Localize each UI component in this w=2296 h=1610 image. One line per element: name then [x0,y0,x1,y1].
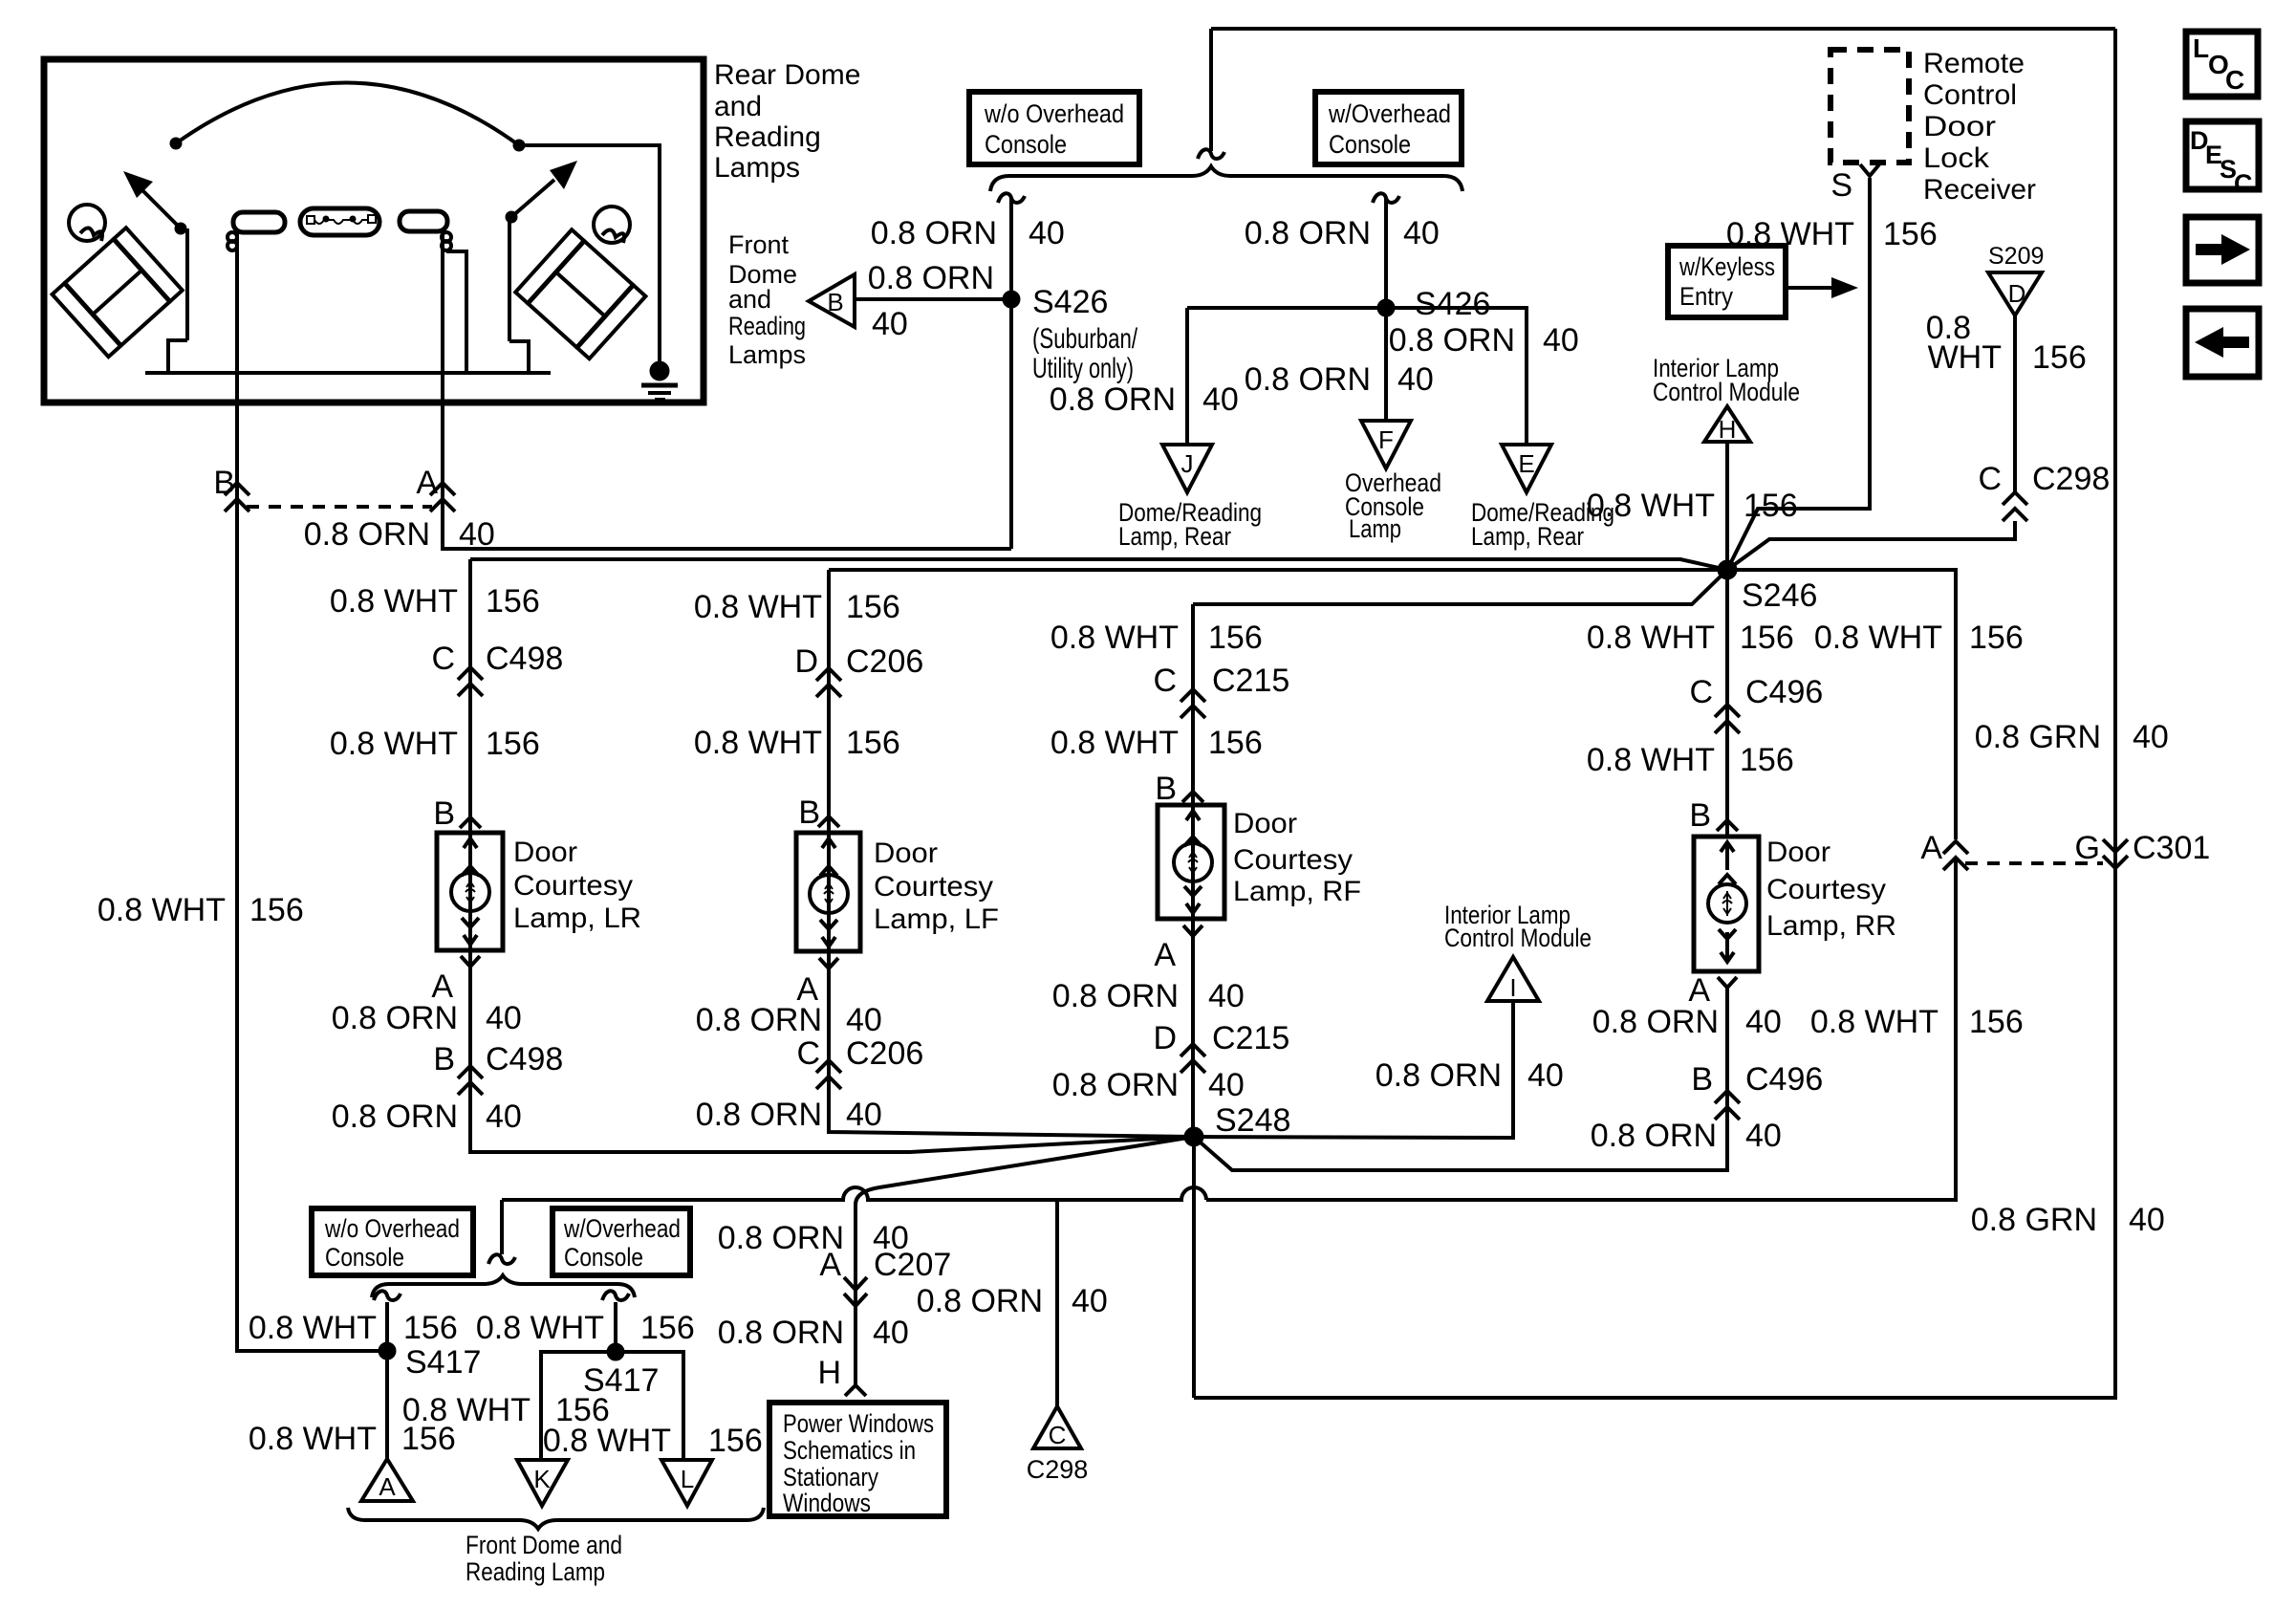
svg-text:Courtesy: Courtesy [874,871,993,903]
label: 0.8 WHT 156 (S wire) [1726,216,1938,252]
pin A chevrons (C301) [1943,841,1968,870]
svg-text:0.8 WHT: 0.8 WHT [543,1423,671,1459]
svg-text:156: 156 [1740,742,1794,778]
svg-text:B: B [433,795,455,832]
label: Front Dome and Reading Lamp [466,1531,622,1586]
pin D / C206 labels [794,643,923,680]
svg-text:w/o Overhead: w/o Overhead [984,99,1124,128]
wire: receiver S to S246 [1727,178,1870,570]
svg-text:Utility only): Utility only) [1032,353,1134,384]
svg-text:Remote: Remote [1923,48,2025,79]
label: 0.8 WHT 156 (LR upper) [330,583,540,620]
svg-text:40: 40 [1745,1004,1782,1040]
label: 0.8 GRN 40 (right bus upper) [1975,719,2169,755]
label: 0.8 WHT 156 (S417-1 upper) [249,1310,458,1346]
label: 0.8 WHT 156 (LF mid) [694,725,900,761]
switch lever arrow right [506,161,577,373]
connector triangle E [1502,445,1551,492]
svg-text:C: C [1689,674,1713,710]
svg-text:156: 156 [708,1423,763,1459]
svg-text:156: 156 [2032,339,2087,376]
svg-text:Lamp, RF: Lamp, RF [1233,876,1361,907]
svg-text:0.8 ORN: 0.8 ORN [1245,215,1371,251]
wire: S417-1 drop [385,1302,389,1459]
svg-text:40: 40 [1208,978,1245,1014]
svg-text:156: 156 [1969,620,2024,656]
svg-text:Lock: Lock [1923,142,1990,174]
svg-text:Door: Door [1923,111,1996,142]
label: 0.8 ORN 40 (RR bottom) [1591,1118,1782,1154]
svg-text:and: and [714,91,762,122]
svg-text:Lamps: Lamps [728,340,806,369]
label: 0.8 WHT 156 (right drop lower) [1810,1004,2024,1040]
svg-text:A: A [379,1472,396,1501]
svg-text:Front: Front [728,230,790,259]
box: w/o Overhead Console (front) [312,1208,473,1275]
wire: S248 to I module drop [1194,1001,1513,1138]
label: Interior Lamp Control Module (I) [1444,901,1592,952]
box: w/Keyless Entry [1668,246,1786,317]
svg-text:156: 156 [640,1310,695,1346]
svg-text:0.8 WHT: 0.8 WHT [1814,620,1942,656]
splice S417 (right) [607,1343,624,1360]
svg-text:40: 40 [1543,322,1579,359]
svg-text:Rear Dome: Rear Dome [714,59,860,91]
svg-text:0.8 WHT: 0.8 WHT [97,892,226,928]
connector v below LR lamp [461,956,480,967]
break squiggle at brace feed [1198,149,1224,159]
svg-text:B: B [1691,1061,1713,1098]
pin G chevrons on right bus [2103,839,2128,868]
svg-text:0.8 WHT: 0.8 WHT [694,589,822,625]
svg-text:w/o Overhead: w/o Overhead [324,1214,460,1243]
chevron above RF lamp [1182,792,1203,802]
svg-text:40: 40 [1029,215,1065,251]
svg-text:156: 156 [249,892,304,928]
reading lamp bulb right [400,211,451,250]
svg-text:(Suburban/: (Suburban/ [1032,323,1137,355]
svg-text:Courtesy: Courtesy [513,870,633,902]
svg-text:0.8 ORN: 0.8 ORN [696,1002,822,1038]
svg-text:40: 40 [486,1000,522,1036]
svg-text:40: 40 [1403,215,1440,251]
svg-text:H: H [817,1355,841,1391]
connector triangle L [661,1460,712,1506]
svg-text:Lamp, Rear: Lamp, Rear [1471,522,1584,551]
svg-text:40: 40 [2133,719,2169,755]
wire: w/overhead console drop to S426 right [1384,198,1388,421]
svg-text:Door: Door [513,837,577,868]
lamp: Door Courtesy Lamp LR [437,833,503,950]
svg-text:0.8 WHT: 0.8 WHT [694,725,822,761]
svg-text:156: 156 [1740,620,1794,656]
box: w/Overhead Console (front) [552,1208,690,1275]
svg-text:A: A [819,1247,841,1283]
label: Dome/Reading Lamp, Rear (J) [1118,498,1262,551]
ground G401 [641,361,678,400]
label: 0.8 WHT 156 (RR mid) [1587,742,1794,778]
pin S connector v [1860,164,1879,176]
label: 0.8 WHT 156 (L wire) [543,1423,763,1459]
wire: D to C298 chevrons [2013,315,2017,491]
connector C215 pin D chevrons [1180,1044,1205,1073]
break squiggle above S417 wire 2 [602,1291,629,1300]
connector triangle I (interior lamp control module) [1487,957,1539,1002]
svg-text:D: D [794,643,818,680]
label: 0.8 WHT 156 (right drop upper) [1814,620,2024,656]
wire: S426 to connector B triangle [855,297,1004,301]
wire A: right lamp feed [443,402,1011,549]
svg-text:Stationary: Stationary [783,1463,878,1491]
break squiggle above brace 2 [488,1254,515,1264]
svg-text:WHT: WHT [1928,339,2002,376]
wire: S246 to right drop [1727,570,1956,839]
svg-text:Control: Control [1923,79,2017,111]
svg-text:156: 156 [846,725,900,761]
svg-text:Lamp, LR: Lamp, LR [513,903,641,934]
wire: ORN 40 bottom bus with hops [502,1187,1206,1200]
wire B: left lamp feed to S417 [237,402,387,1351]
pin B / C498 labels [433,1041,563,1077]
lamp: Door Courtesy Lamp RR [1694,837,1759,971]
svg-text:E: E [1518,449,1534,478]
wire: drop from top bus to brace [1209,29,1213,151]
svg-text:156: 156 [1969,1004,2024,1040]
svg-text:40: 40 [1745,1118,1782,1154]
wire: RR column from S246 [1725,570,1729,837]
svg-text:H: H [1719,415,1737,444]
connector C498 pin B chevrons [458,1066,483,1095]
rear dome and reading lamps assembly box [44,59,704,402]
svg-text:C: C [431,641,455,677]
wire: right drop lower to bottom bus [1206,858,1956,1200]
svg-text:S417: S417 [405,1344,481,1381]
svg-text:w/Overhead: w/Overhead [563,1214,681,1243]
label: 0.8 ORN 40 (RF bottom) [1052,1067,1245,1103]
wire: H drop from S248 [856,1137,1194,1386]
brace over console options [990,166,1462,191]
connector C206 pin C chevrons [816,1060,841,1089]
connector v below RF lamp [1183,925,1202,936]
wire: S417-2 to L drop [616,1352,683,1460]
splice S248 [1184,1127,1203,1146]
svg-text:C496: C496 [1745,674,1823,710]
label: 0.8 WHT 156 (wire B) [97,892,304,928]
svg-text:S: S [1830,167,1852,204]
seat occupant right [515,207,645,359]
label: Rear Dome and Reading Lamps [714,59,860,184]
label: 0.8 ORN 40 (LR lower) [332,1000,522,1036]
wire: top feed bus from right bus to console brace [1211,27,2115,31]
svg-text:40: 40 [1397,361,1434,398]
connector triangle A (front dome lamp) [361,1459,413,1501]
wire: S417-2 drop [614,1302,617,1352]
box: Remote Control Door Lock Receiver (dashed) [1830,50,1909,163]
connector triangle D (S209) [1988,272,2042,315]
label: 0.8 ORN 40 (H upper) [718,1220,909,1256]
wire: 156 bus S246 to LF column [829,568,1727,572]
svg-text:C498: C498 [486,641,563,677]
svg-text:156: 156 [486,583,540,620]
connector C498 pin C chevrons [458,667,483,696]
svg-text:C301: C301 [2133,830,2210,866]
svg-text:C: C [1978,461,2002,497]
svg-text:C215: C215 [1212,1020,1289,1056]
pin D / C215 labels [1153,1020,1289,1056]
svg-text:Door: Door [1233,808,1297,839]
label: Door Courtesy Lamp, LR [513,837,641,934]
svg-text:C215: C215 [1212,663,1289,699]
reading lamp bulb left [227,212,285,250]
svg-text:Reading: Reading [728,312,806,340]
svg-text:S426: S426 [1415,286,1490,322]
svg-text:C: C [1153,663,1177,699]
svg-text:Control Module: Control Module [1653,378,1800,406]
label: Door Courtesy Lamp, RR [1766,837,1896,942]
svg-text:C206: C206 [846,1035,923,1072]
svg-text:156: 156 [403,1310,458,1346]
svg-text:K: K [533,1465,551,1493]
lamp: Door Courtesy Lamp RF [1158,805,1224,919]
arrow from keyless entry box [1786,277,1858,298]
seat occupant left [53,205,183,357]
svg-text:0.8 ORN: 0.8 ORN [718,1315,844,1351]
svg-text:0.8 ORN: 0.8 ORN [871,215,997,251]
svg-text:Console: Console [325,1243,404,1272]
splice S426 (right) [1377,299,1395,316]
svg-text:w/Keyless: w/Keyless [1679,252,1775,281]
svg-text:Console: Console [985,130,1067,159]
wire: dashed connector link B-A [247,505,432,509]
chevron above LF lamp [818,816,839,827]
wire: RF column vertical [1191,604,1195,1137]
wire: w/o overhead console drop to S426 [1009,198,1013,549]
svg-text:Lamp, RR: Lamp, RR [1766,910,1896,942]
pin C / C206 labels [796,1035,923,1072]
brace under front dome connectors [348,1508,764,1529]
svg-text:C298: C298 [2032,461,2110,497]
svg-text:0.8 ORN: 0.8 ORN [1050,381,1176,418]
wire: J drop [1185,308,1189,445]
svg-text:A: A [416,465,438,501]
wire: LR column vertical [470,559,1193,1152]
svg-text:w/Overhead: w/Overhead [1328,99,1451,128]
connector C298 pin C chevrons [2003,492,2027,521]
svg-text:Front Dome and: Front Dome and [466,1531,622,1559]
svg-text:156: 156 [1744,488,1798,524]
svg-text:0.8 ORN: 0.8 ORN [1592,1004,1719,1040]
svg-text:Courtesy: Courtesy [1766,874,1886,905]
svg-text:0.8 WHT: 0.8 WHT [330,726,458,762]
svg-text:A: A [1154,937,1176,973]
svg-text:C: C [1049,1421,1067,1449]
svg-text:156: 156 [846,589,900,625]
svg-text:B: B [1689,797,1711,834]
svg-text:D: D [2008,279,2026,308]
label: 0.8 ORN 40 (E wire) [1389,322,1579,359]
label: Interior Lamp Control Module (H) [1653,354,1800,406]
label: 0.8 ORN 40 (C298 wire) [917,1283,1108,1319]
connector triangle J [1162,445,1212,492]
brace over front console options [372,1275,635,1297]
svg-text:Reading Lamp: Reading Lamp [466,1557,605,1586]
svg-text:40: 40 [846,1002,882,1038]
svg-text:0.8 WHT: 0.8 WHT [402,1392,531,1428]
svg-text:S246: S246 [1742,577,1817,614]
svg-text:0.8 ORN: 0.8 ORN [1052,978,1179,1014]
svg-text:0.8 WHT: 0.8 WHT [249,1421,377,1457]
svg-text:0.8 ORN: 0.8 ORN [304,516,430,553]
label: 0.8 WHT 156 (K wire) [402,1392,610,1428]
label: Dome/Reading Lamp, Rear (E) [1471,498,1614,551]
label: Front Dome and Reading Lamps [728,230,806,369]
chevron above LR lamp [460,817,481,828]
svg-text:0.8 WHT: 0.8 WHT [1810,1004,1939,1040]
svg-text:0.8 WHT: 0.8 WHT [1587,488,1715,524]
label: Overhead Console Lamp (F) [1345,468,1441,543]
pin A / C207 labels [819,1247,951,1283]
wire: S248 down to bottom bus [1192,1137,1196,1398]
switch lever arrow left [123,171,187,373]
svg-text:C498: C498 [486,1041,563,1077]
svg-text:F: F [1378,425,1394,454]
label: 0.8 WHT 156 (RF upper) [1051,620,1263,656]
pin C / C498 labels [431,641,563,677]
svg-text:A: A [1920,830,1942,866]
pin C / C496 labels [1689,674,1823,710]
wire: seat ground bus [145,371,551,375]
svg-text:40: 40 [873,1315,909,1351]
svg-text:S209: S209 [1988,243,2044,270]
svg-text:Console: Console [1329,130,1411,159]
svg-text:40: 40 [486,1099,522,1135]
connector triangle K [517,1460,568,1506]
node: arc right dot [513,140,525,151]
wire: S417-2 to K drop [541,1352,616,1460]
svg-text:J: J [1181,449,1194,478]
connector triangle C (C298) [1033,1406,1081,1449]
svg-text:Entry: Entry [1679,282,1733,311]
svg-text:B: B [827,288,843,316]
svg-text:Lamp, LF: Lamp, LF [874,903,999,935]
splice S426 (left) [1003,291,1020,308]
connector chevrons on wire A [430,483,455,511]
connector chevrons on wire B [225,483,249,511]
wire: right bus GRN 40 [1194,29,2115,1398]
svg-text:B: B [433,1041,455,1077]
box: w/o Overhead Console [969,92,1139,164]
connector C496 pin B chevrons [1715,1091,1740,1120]
connector C207 pin A chevrons [844,1277,867,1306]
splice S417 (left) [379,1342,396,1360]
label: 0.8 ORN 40 (overhead console lamp wire F) [1245,361,1434,398]
svg-text:Reading: Reading [714,121,821,153]
svg-text:0.8 ORN: 0.8 ORN [917,1283,1043,1319]
connector C215 pin C chevrons [1180,689,1205,718]
label: 0.8 WHT 156 (S417-1 lower) [249,1421,456,1457]
break squiggle above console wire [998,193,1025,203]
svg-text:156: 156 [486,726,540,762]
label: 0.8 ORN 40 (H lower) [718,1315,909,1351]
label: 0.8 GRN 40 (right bus lower) [1971,1202,2165,1238]
connector triangle F [1361,421,1411,468]
label: 0.8 ORN 40 (RR lower) [1592,1004,1782,1040]
label: 0.8 ORN 40 (LF bottom) [696,1097,882,1133]
label: 0.8 WHT 156 (RR upper) [1587,620,1794,656]
label: 0.8 ORN 40 (right console drop) [1245,215,1440,251]
svg-text:C: C [2234,169,2253,198]
chevron above RR lamp [1717,820,1738,831]
svg-text:Console: Console [564,1243,643,1272]
label S426 (Suburban/Utility only) [1032,284,1137,384]
svg-text:0.8 WHT: 0.8 WHT [1587,742,1715,778]
wire: right lamp feed inside box [441,231,444,402]
svg-text:C298: C298 [1027,1455,1089,1484]
wire: left lamp feed inside box [235,232,239,402]
wire: LF column vertical [829,570,1193,1137]
label: Door Courtesy Lamp, RF [1233,808,1361,907]
pin G / C301 labels [2075,830,2211,866]
svg-text:Receiver: Receiver [1923,174,2036,206]
pin C / C298 labels [1978,461,2110,497]
label: 0.8 ORN 40 (LR bottom) [332,1099,522,1135]
connector v below LF lamp [819,958,838,968]
connector chevron above power windows box [845,1385,866,1396]
connector v below RR lamp [1718,977,1737,988]
svg-text:0.8 WHT: 0.8 WHT [1587,620,1715,656]
dome lamp festoon bulb [300,208,379,235]
label: Door Courtesy Lamp, LF [874,838,999,935]
wire: S426 right to J drop [1187,306,1386,310]
svg-text:0.8 GRN: 0.8 GRN [1971,1202,2097,1238]
svg-text:0.8 ORN: 0.8 ORN [696,1097,822,1133]
svg-text:D: D [1153,1020,1177,1056]
svg-text:0.8 WHT: 0.8 WHT [476,1310,604,1346]
connector C206 pin D chevrons [816,668,841,697]
svg-text:0.8 GRN: 0.8 GRN [1975,719,2101,755]
label: 0.8 ORN 40 (wire A) [304,516,495,553]
wire: RR lamp to S248 [1194,988,1727,1170]
svg-text:and: and [728,285,771,314]
svg-text:C206: C206 [846,643,923,680]
label: 0.8 ORN 40 (I wire) [1375,1057,1564,1094]
label: 0.8 ORN 40 (RF lower) [1052,978,1245,1014]
svg-text:Schematics in: Schematics in [783,1436,916,1465]
svg-text:0.8 ORN: 0.8 ORN [1245,361,1371,398]
wire: lamp select arc [176,82,519,145]
svg-text:40: 40 [1202,381,1239,418]
svg-text:0.8 ORN: 0.8 ORN [332,1000,458,1036]
label: 0.8 WHT 156 (S417-2 upper) [476,1310,695,1346]
svg-text:B: B [213,465,235,501]
svg-text:Power Windows: Power Windows [783,1409,934,1438]
wire: S426 right to E drop [1386,308,1527,445]
label: 0.8 WHT 156 (RF mid) [1051,725,1263,761]
wire: bulb jog to ground bus [446,251,466,373]
svg-text:0.8 WHT: 0.8 WHT [249,1310,377,1346]
break squiggle [1373,193,1399,203]
svg-text:Windows: Windows [783,1489,871,1517]
node: arc left dot [170,138,182,149]
wire: C298 down to S246 [1727,521,2015,570]
wire: bus drop to front console brace [500,1200,504,1254]
svg-text:Door: Door [874,838,938,869]
break squiggle above S417 wire 1 [374,1291,401,1300]
svg-text:0.8 ORN: 0.8 ORN [1389,322,1515,359]
svg-text:0.8 ORN: 0.8 ORN [868,260,994,296]
svg-text:0.8 WHT: 0.8 WHT [330,583,458,620]
connector C496 pin C chevrons [1715,705,1740,733]
